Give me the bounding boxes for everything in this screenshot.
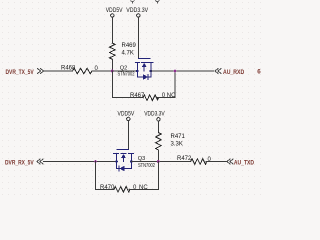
svg-text:NC: NC (139, 185, 148, 191)
svg-text:R469: R469 (122, 43, 137, 49)
wire NC branch up to junction (157, 162, 159, 190)
power symbol VDD3.3V (top) (137, 14, 140, 59)
transistor Q2 STN7002 (135, 58, 153, 79)
top cut-off symbol remnant 1 (131, 0, 134, 3)
svg-text:R468: R468 (61, 66, 76, 72)
offpage port DVR_TX_5V (38, 69, 44, 74)
svg-text:VDD3.3V: VDD3.3V (144, 111, 165, 118)
svg-text:AU_TXD: AU_TXD (234, 160, 255, 167)
wire junction down to R470 (96, 162, 115, 190)
svg-text:STN7002: STN7002 (138, 163, 155, 169)
power symbol VDD3.3V (bottom) (157, 118, 160, 133)
svg-text:R471: R471 (171, 134, 186, 140)
svg-text:VDD3.3V: VDD3.3V (126, 7, 148, 14)
resistor R468 (series, 0 ohm) (73, 68, 92, 74)
resistor R469 4.7K (vertical) (110, 43, 116, 59)
svg-text:4.7K: 4.7K (122, 51, 134, 57)
wire NC branch up to output (174, 71, 176, 98)
svg-text:3.3K: 3.3K (171, 142, 183, 148)
power symbol VDD5V (bottom) (127, 117, 130, 149)
top cut-off symbol remnant 2 (156, 0, 159, 3)
wire R469 to junction (111, 60, 113, 72)
wire R470 to pull-up vertical (129, 188, 158, 190)
resistor R467 (0 ohm, NC) (143, 95, 158, 101)
offpage port AU_TXD (227, 159, 233, 164)
power symbol VDD5V (top) (111, 14, 114, 43)
resistor R472 (series, 0 ohm) (191, 159, 207, 165)
wire R471 to junction (157, 150, 159, 162)
svg-text:VDD5V: VDD5V (118, 111, 135, 118)
svg-text:6: 6 (257, 69, 261, 76)
svg-text:AU_RXD: AU_RXD (223, 69, 245, 76)
svg-text:STN7002: STN7002 (118, 72, 135, 78)
junction node (R470 branch) (94, 160, 97, 163)
offpage port DVR_RX_5V (37, 159, 43, 164)
svg-text:DVR_RX_5V: DVR_RX_5V (5, 159, 34, 166)
svg-text:R467: R467 (130, 93, 145, 99)
svg-text:R470: R470 (100, 185, 115, 191)
wire R472 to port (206, 161, 226, 163)
svg-text:R472: R472 (177, 156, 192, 162)
offpage port AU_RXD (215, 69, 221, 74)
transistor Q3 STN7002 (113, 150, 133, 172)
svg-text:Q2: Q2 (120, 66, 127, 72)
junction node (R471 pull-up) (157, 160, 160, 163)
wire port to Q3 (44, 161, 117, 163)
wire Q3 to R472 (131, 161, 190, 163)
svg-text:VDD5V: VDD5V (106, 7, 123, 14)
wire port to R468 (44, 70, 73, 72)
junction node (output / NC branch) (174, 70, 177, 73)
wire Q2 source to output junction (151, 70, 214, 72)
resistor R471 3.3K (vertical) (156, 133, 162, 150)
svg-text:DVR_TX_5V: DVR_TX_5V (6, 69, 35, 76)
wire R467 to NC vertical (158, 97, 176, 99)
wire R468 to Q2 drain node (92, 70, 137, 72)
wire drain node down to R467 (112, 71, 143, 98)
resistor R470 (0 ohm, NC) (114, 187, 130, 193)
junction node (R469 pull-up / drain) (111, 70, 114, 73)
